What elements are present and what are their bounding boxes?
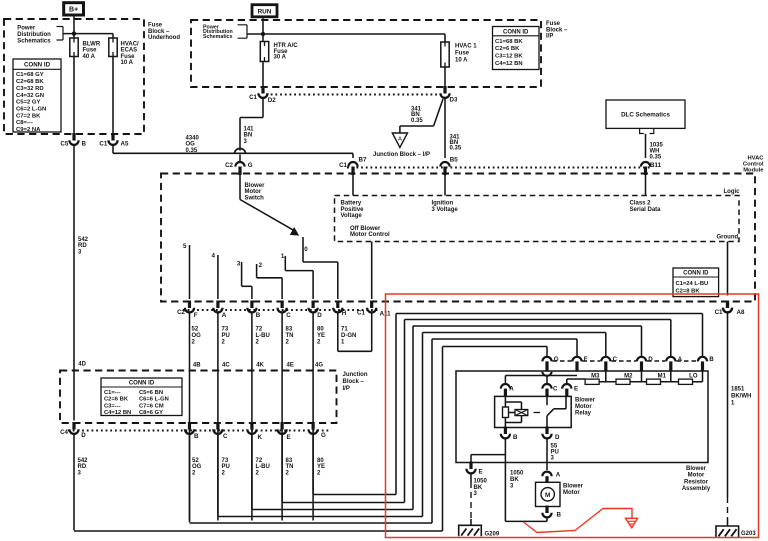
svg-text:0.35: 0.35 [650,155,662,161]
svg-text:B: B [513,434,518,441]
svg-text:Module: Module [743,168,764,174]
svg-text:M3: M3 [591,373,600,379]
svg-text:72: 72 [256,327,263,333]
svg-text:52: 52 [192,458,199,464]
svg-text:OG: OG [192,333,202,339]
svg-text:73: 73 [222,458,229,464]
svg-text:0: 0 [304,246,308,253]
svg-text:Assembly: Assembly [682,486,711,492]
svg-text:C2: C2 [177,309,185,316]
svg-text:4G: 4G [315,363,323,369]
svg-text:Blower: Blower [686,466,707,472]
svg-text:K: K [258,434,263,441]
svg-text:D: D [555,434,560,441]
svg-text:B5: B5 [450,156,458,163]
svg-text:D: D [317,312,322,319]
svg-text:Class 2: Class 2 [630,201,652,207]
svg-text:141: 141 [244,126,255,132]
svg-text:80: 80 [317,458,324,464]
svg-text:C2=6 BK: C2=6 BK [495,46,520,52]
svg-text:Voltage: Voltage [341,213,363,219]
svg-text:B: B [709,356,714,363]
svg-text:C1=---: C1=--- [104,390,121,396]
svg-text:Schematics: Schematics [17,39,51,45]
svg-text:C1: C1 [715,309,723,316]
svg-text:542: 542 [78,458,89,464]
svg-text:C3=12 BK: C3=12 BK [495,54,523,60]
svg-text:F: F [194,312,198,319]
svg-text:Motor: Motor [575,404,592,410]
svg-text:HVAC/: HVAC/ [121,41,140,47]
svg-text:C2=6 BK: C2=6 BK [104,397,129,403]
svg-text:L-BU: L-BU [256,333,270,339]
svg-text:L-BU: L-BU [256,464,270,470]
svg-text:2: 2 [259,262,263,269]
svg-text:C5=2 GY: C5=2 GY [16,100,40,106]
svg-text:Block –: Block – [148,29,170,35]
svg-text:Schematics: Schematics [203,34,232,40]
svg-text:C7=2 BK: C7=2 BK [16,113,41,119]
svg-text:C1: C1 [339,162,347,169]
svg-text:4B: 4B [193,363,201,369]
svg-text:30 A: 30 A [274,55,287,61]
svg-text:G209: G209 [485,532,500,538]
svg-text:C1=24 L-BU: C1=24 L-BU [676,281,709,287]
svg-text:I/P: I/P [546,34,553,40]
svg-text:D-GN: D-GN [341,333,356,339]
svg-text:M2: M2 [624,373,633,379]
svg-text:TN: TN [286,333,294,339]
svg-text:Blower: Blower [575,398,596,404]
svg-text:Motor Control: Motor Control [350,232,390,238]
svg-text:E: E [479,469,483,476]
svg-text:C1: C1 [249,94,257,101]
svg-text:CONN ID: CONN ID [683,270,709,276]
svg-text:C1=68 BK: C1=68 BK [495,39,523,45]
svg-text:B+: B+ [69,6,78,13]
svg-text:Fuse: Fuse [455,51,470,57]
svg-text:C6=6 L-GN: C6=6 L-GN [139,397,169,403]
svg-text:83: 83 [286,458,293,464]
svg-text:G: G [321,432,326,439]
svg-text:3: 3 [237,261,241,268]
svg-text:40 A: 40 A [83,54,96,60]
svg-text:C4: C4 [60,429,68,436]
svg-text:RD: RD [78,243,87,249]
svg-text:1050: 1050 [474,478,488,484]
svg-text:Junction: Junction [343,372,368,378]
svg-text:5: 5 [183,243,187,250]
svg-text:10 A: 10 A [455,58,468,64]
svg-text:0.35: 0.35 [450,146,462,152]
svg-text:LO: LO [689,373,698,379]
svg-text:BK/WH: BK/WH [731,394,751,400]
svg-text:C3=---: C3=--- [104,403,121,409]
svg-text:PU: PU [222,464,230,470]
svg-text:BLWR: BLWR [83,41,101,47]
svg-text:10 A: 10 A [121,60,134,66]
svg-text:OG: OG [192,464,202,470]
svg-text:A: A [222,312,227,319]
svg-text:Switch: Switch [245,196,265,202]
svg-text:Positive: Positive [341,207,365,213]
svg-text:B: B [256,312,261,319]
svg-text:Logic: Logic [724,189,741,195]
svg-text:B7: B7 [359,156,367,163]
svg-text:Off Blower: Off Blower [350,226,381,232]
svg-text:3 Voltage: 3 Voltage [432,207,459,213]
svg-text:A: A [556,472,561,479]
svg-text:Relay: Relay [575,411,592,417]
svg-text:Junction Block – I/P: Junction Block – I/P [373,152,430,158]
svg-text:BK: BK [474,485,483,491]
svg-text:C1=68 GY: C1=68 GY [16,72,44,78]
svg-text:C2: C2 [225,162,233,169]
svg-text:D: D [81,432,86,439]
svg-text:A5: A5 [121,141,129,148]
svg-text:D3: D3 [450,97,458,104]
svg-text:B: B [82,141,87,148]
svg-text:CONN ID: CONN ID [503,29,529,35]
svg-text:YE: YE [317,464,325,470]
svg-text:Underhood: Underhood [148,35,180,41]
svg-text:OG: OG [186,142,196,148]
svg-text:B: B [194,433,199,440]
svg-text:B11: B11 [650,162,662,169]
svg-text:52: 52 [192,327,199,333]
svg-text:Fuse: Fuse [83,48,98,54]
svg-text:A8: A8 [737,309,745,316]
svg-text:C7=6 CM: C7=6 CM [139,403,164,409]
svg-text:HVAC 1: HVAC 1 [455,43,477,49]
svg-text:4E: 4E [287,363,294,369]
svg-text:83: 83 [286,327,293,333]
svg-text:C3=32 RD: C3=32 RD [16,86,44,92]
svg-text:D2: D2 [268,97,276,104]
svg-text:A: A [509,385,514,392]
svg-text:Ground: Ground [717,235,739,241]
svg-text:BN: BN [244,133,253,139]
svg-text:C5: C5 [60,141,68,148]
svg-text:G: G [248,162,253,169]
svg-text:Distribution: Distribution [17,32,51,38]
svg-text:PU: PU [222,333,230,339]
svg-text:C4=12 BN: C4=12 BN [104,410,131,416]
svg-text:C: C [286,312,291,319]
svg-text:C8=---: C8=--- [16,120,33,126]
svg-text:Block –: Block – [546,27,568,33]
svg-text:M: M [545,492,550,499]
svg-text:C5=6 BN: C5=6 BN [139,390,163,396]
svg-text:4340: 4340 [186,136,200,142]
svg-text:Battery: Battery [341,201,362,207]
svg-text:1851: 1851 [731,387,745,393]
svg-text:4K: 4K [256,363,264,369]
svg-text:Motor: Motor [563,490,580,496]
svg-text:4D: 4D [78,362,86,368]
svg-text:71: 71 [341,327,348,333]
svg-text:C6=2 L-GN: C6=2 L-GN [16,106,46,112]
svg-text:G203: G203 [741,531,756,537]
svg-text:4: 4 [212,253,216,260]
svg-text:YE: YE [317,333,325,339]
svg-text:Motor: Motor [245,189,262,195]
svg-text:M1: M1 [658,373,667,379]
svg-text:Fuse: Fuse [148,23,163,29]
svg-text:RUN: RUN [258,8,272,15]
svg-text:Ignition: Ignition [432,201,454,207]
svg-text:E: E [287,434,291,441]
svg-text:4C: 4C [222,363,230,369]
svg-text:C1: C1 [357,310,365,317]
svg-text:ECAS: ECAS [121,48,138,54]
svg-text:C1: C1 [99,141,107,148]
svg-text:Block –: Block – [343,379,365,385]
svg-text:Motor: Motor [688,473,705,479]
svg-text:H: H [342,310,347,317]
svg-text:C4=12 BN: C4=12 BN [495,61,523,67]
svg-text:C: C [223,433,228,440]
svg-text:TN: TN [286,464,294,470]
svg-text:I/P: I/P [343,386,350,392]
svg-text:Serial Data: Serial Data [630,207,662,213]
svg-text:Blower: Blower [245,183,266,189]
svg-text:BK: BK [510,477,519,483]
svg-text:CONN ID: CONN ID [24,62,51,69]
svg-text:Resistor: Resistor [684,479,709,485]
svg-text:73: 73 [222,327,229,333]
svg-text:Fuse: Fuse [546,21,561,27]
svg-text:A: A [398,136,402,142]
svg-text:1050: 1050 [510,471,524,477]
svg-text:C: C [553,385,558,392]
svg-text:1: 1 [281,253,285,260]
svg-text:Fuse: Fuse [121,54,136,60]
svg-text:C8=6 GY: C8=6 GY [139,410,163,416]
svg-text:0.35: 0.35 [411,118,423,124]
svg-text:C9=2 NA: C9=2 NA [16,127,41,133]
svg-text:DLC Schematics: DLC Schematics [621,112,670,119]
svg-text:542: 542 [78,237,89,243]
svg-text:Power: Power [17,26,36,32]
svg-text:RD: RD [78,464,87,470]
svg-text:CONN ID: CONN ID [129,381,155,387]
svg-text:72: 72 [256,458,263,464]
svg-text:E: E [574,385,578,392]
svg-text:C4=32 GN: C4=32 GN [16,93,44,99]
svg-text:80: 80 [317,327,324,333]
svg-text:C2=68 BK: C2=68 BK [16,79,44,85]
svg-text:B: B [557,512,562,519]
svg-text:Blower: Blower [563,484,584,490]
